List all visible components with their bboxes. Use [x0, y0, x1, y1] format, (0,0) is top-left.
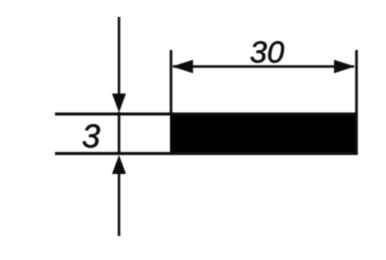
svg-text:30: 30: [250, 35, 284, 70]
arrowhead left (points left): [172, 60, 193, 73]
extension line left (30 dim): [170, 50, 173, 113]
vertical dimension line middle segment between edge lines: [118, 112, 121, 155]
bottom edge line extended left: [55, 152, 357, 155]
top edge line extended left: [55, 113, 357, 116]
arrowhead down (points down to bar top): [112, 94, 126, 113]
extension line right (30 dim): [355, 50, 358, 155]
vertical dimension line lower segment (3 dim): [118, 172, 121, 236]
arrowhead up (points up to bar bottom): [112, 155, 126, 174]
bar cross-section (filled rectangle 30x3): [170, 113, 357, 156]
vertical dimension line upper segment (3 dim): [118, 17, 121, 96]
arrowhead right (points right): [334, 60, 355, 73]
svg-text:3: 3: [82, 118, 101, 155]
dimension line 30: [173, 65, 354, 68]
